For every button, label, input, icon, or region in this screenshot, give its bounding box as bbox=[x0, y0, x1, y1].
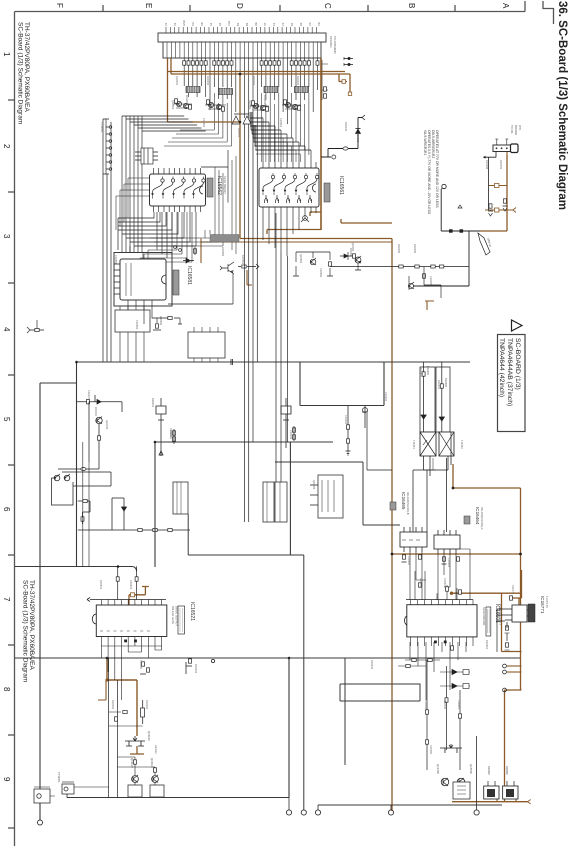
svg-text:C16461: C16461 bbox=[457, 700, 461, 710]
terminal drop right 2 bbox=[476, 736, 478, 810]
transistor below IC16561 bbox=[301, 213, 309, 222]
left rail x76 down bbox=[76, 362, 78, 567]
x427 long drop bbox=[426, 470, 428, 540]
svg-text:ST: ST bbox=[263, 22, 267, 26]
IC16464 label tag bbox=[464, 507, 484, 530]
third stage drops right half bbox=[262, 118, 301, 162]
brown crystal drops bbox=[497, 787, 516, 802]
mid verticals bbox=[427, 660, 460, 770]
wires under IC16501 bbox=[410, 642, 466, 700]
svg-text:B1: B1 bbox=[236, 22, 240, 26]
brown bus y238 long bbox=[240, 238, 392, 240]
wire x469 down elbow bbox=[413, 231, 469, 286]
extra verticals under mesh bbox=[136, 230, 214, 264]
long vertical x257 bbox=[256, 112, 258, 362]
svg-text:A1: A1 bbox=[209, 22, 213, 26]
svg-text:SC-Board (1/3) Schematic Diagr: SC-Board (1/3) Schematic Diagram bbox=[17, 22, 24, 124]
dip to ic16501 wires bbox=[410, 552, 456, 600]
rail y530 bbox=[78, 529, 190, 531]
wire q16003 drop bbox=[355, 263, 361, 270]
IC16581 top wire bbox=[130, 246, 143, 259]
svg-text:C16465: C16465 bbox=[407, 556, 411, 566]
svg-text:RA16562: RA16562 bbox=[185, 95, 189, 106]
box under pair bbox=[453, 782, 470, 799]
arrow terminal row3 bbox=[251, 264, 259, 269]
svg-text:R16004: R16004 bbox=[296, 76, 300, 86]
svg-text:R16022: R16022 bbox=[111, 700, 115, 710]
svg-text:SU: SU bbox=[191, 22, 195, 26]
svg-text:R16481: R16481 bbox=[426, 366, 430, 376]
svg-text:Q16460: Q16460 bbox=[436, 764, 440, 774]
brown wire q16010 drop bbox=[130, 746, 144, 754]
test point strip TP column bbox=[103, 119, 112, 174]
svg-text:R16521: R16521 bbox=[99, 580, 103, 590]
svg-text:7: 7 bbox=[2, 597, 11, 602]
wire y284 segment bbox=[424, 285, 441, 298]
svg-text:E: E bbox=[144, 3, 153, 8]
long rail y362 bbox=[77, 361, 471, 363]
svg-text:R16461: R16461 bbox=[485, 640, 489, 650]
svg-text:C1: C1 bbox=[272, 22, 276, 26]
svg-text:C16025: C16025 bbox=[139, 660, 143, 670]
x290 long drop bbox=[289, 442, 291, 555]
long vertical bundle center down bbox=[244, 124, 248, 522]
brown wire right rail down bbox=[520, 554, 522, 690]
wire bundle below connector bbox=[184, 58, 317, 125]
bottom bus y797 bbox=[67, 797, 289, 799]
svg-text:R16582: R16582 bbox=[221, 247, 225, 257]
IC16562 sub label bbox=[223, 176, 227, 194]
feeds above IC16521 bbox=[116, 566, 138, 599]
IC16561 body bbox=[259, 168, 319, 207]
brown wire IC16561 to bus bbox=[310, 212, 321, 216]
brown bead on cluster bbox=[342, 80, 346, 84]
IC16501 top pins bbox=[411, 600, 474, 605]
svg-text:SCAN DRIVER: SCAN DRIVER bbox=[482, 607, 486, 625]
svg-text:TP16561: TP16561 bbox=[100, 122, 104, 133]
IC16561 label text bbox=[338, 176, 344, 195]
IC16521 notch bbox=[92, 614, 96, 624]
svg-text:C16521: C16521 bbox=[129, 580, 133, 590]
border corner bracket top right bbox=[543, 1, 554, 24]
tick D/C bbox=[279, 5, 281, 12]
svg-text:T16451: T16451 bbox=[412, 440, 416, 449]
note region warning text col 2 bbox=[431, 130, 439, 208]
long wire y266 bbox=[330, 266, 469, 268]
terminal drop right 1 bbox=[390, 805, 392, 810]
transistor Q16003 bbox=[355, 256, 361, 263]
elbow lower bbox=[78, 501, 90, 524]
left terminal link wire bbox=[74, 786, 109, 788]
verticals right x423/441 to transformers bbox=[424, 458, 436, 470]
sustain upper circuit box bbox=[300, 362, 368, 428]
svg-text:DB-9-WRRGR1R2: DB-9-WRRGR1R2 bbox=[431, 130, 435, 158]
note region warning text col 1 bbox=[423, 130, 431, 215]
crystal labels bbox=[487, 766, 508, 775]
brown wire tap y651 bbox=[502, 651, 522, 653]
svg-text:F: F bbox=[55, 3, 64, 8]
IC16771 body bbox=[505, 605, 532, 622]
x155 drop bbox=[154, 442, 156, 567]
svg-text:TNPA4644 (42inch): TNPA4644 (42inch) bbox=[498, 338, 505, 397]
svg-text:R16012: R16012 bbox=[356, 133, 360, 143]
beads left bottom bbox=[115, 711, 128, 722]
tick B/A bbox=[454, 5, 456, 12]
IC16501 label text bbox=[494, 604, 500, 623]
IC16771 label tag bbox=[528, 604, 535, 622]
svg-text:SC-BOARD (1/3): SC-BOARD (1/3) bbox=[514, 338, 521, 390]
svg-text:D16010: D16010 bbox=[94, 407, 98, 417]
drive transformer box 2 bbox=[439, 432, 454, 456]
svg-text:B2: B2 bbox=[245, 22, 249, 26]
components x348 bbox=[346, 406, 351, 454]
svg-text:IC16465: IC16465 bbox=[401, 492, 406, 510]
svg-text:9: 9 bbox=[2, 777, 11, 782]
left terminal label bbox=[57, 772, 61, 783]
brown wire right cluster top bbox=[339, 74, 350, 93]
brown wire tap y666 bbox=[507, 665, 522, 667]
recovery cell right bbox=[281, 398, 296, 448]
svg-text:(P7): (P7) bbox=[518, 125, 522, 130]
svg-text:OR-AND(SU,SD)-A: OR-AND(SU,SD)-A bbox=[480, 507, 484, 530]
svg-text:B: B bbox=[407, 3, 416, 8]
svg-text:TP16001: TP16001 bbox=[57, 772, 61, 783]
rail y566 left bbox=[15, 567, 137, 572]
terminal drop 2 bbox=[303, 555, 305, 810]
transistor Q16010L bbox=[96, 417, 102, 425]
IC16464 dip body bbox=[434, 530, 460, 554]
warning triangle bbox=[512, 320, 523, 331]
svg-text:C16090: C16090 bbox=[429, 745, 433, 755]
svg-text:TO PA-: TO PA- bbox=[510, 125, 514, 134]
IC16501 body bbox=[407, 605, 477, 637]
IC16521 top wire bbox=[87, 598, 166, 602]
extra mesh verticals between ICs bbox=[215, 156, 236, 254]
svg-text:R16583: R16583 bbox=[159, 316, 163, 326]
svg-text:IC16771: IC16771 bbox=[540, 596, 545, 614]
IC16501 notch bbox=[405, 616, 407, 625]
svg-text:GEN22: GEN22 bbox=[154, 745, 158, 754]
brown wire y223 right bbox=[341, 219, 392, 223]
brown wire bottom right horiz bbox=[452, 801, 528, 803]
svg-text:Q16562: Q16562 bbox=[171, 100, 175, 110]
box outline above bbox=[340, 684, 420, 701]
IC16581 label text bbox=[186, 266, 192, 285]
components under rail bbox=[140, 659, 215, 674]
IC16465 dip body bbox=[400, 527, 427, 552]
wire bundle second stage drops bbox=[214, 93, 309, 155]
brown wire tap y672 bbox=[507, 671, 522, 673]
tick bottom bbox=[8, 827, 15, 829]
svg-text:C: C bbox=[323, 3, 332, 9]
mesh verticals under ic16562 bbox=[157, 212, 172, 262]
connector SC1 pin labels bbox=[164, 20, 321, 26]
svg-text:C16464: C16464 bbox=[447, 558, 451, 568]
svg-text:1: 1 bbox=[2, 52, 11, 57]
svg-text:SC-Board (1/3) Schematic Diagr: SC-Board (1/3) Schematic Diagram bbox=[22, 580, 29, 682]
vertical x367 from y410 bbox=[367, 413, 392, 470]
tick row8/9 bbox=[8, 734, 15, 736]
svg-text:Q16010: Q16010 bbox=[147, 731, 151, 741]
tick row2/3 bbox=[8, 191, 15, 193]
IC16581 label tag bbox=[173, 270, 179, 295]
IC16771 label text bbox=[540, 596, 545, 614]
rail y469 bbox=[58, 468, 99, 470]
terminal arrow right bbox=[362, 115, 365, 120]
connector SC1 pin stubs above bbox=[166, 27, 317, 33]
terminal circle right 2 bbox=[474, 810, 479, 815]
svg-text:CLK: CLK bbox=[227, 21, 231, 26]
IC16501 label tag bbox=[486, 607, 491, 636]
svg-text:R16002: R16002 bbox=[206, 76, 210, 86]
box below IC16581 bbox=[115, 310, 150, 332]
svg-text:T16452: T16452 bbox=[460, 440, 464, 449]
IC16561 bottom pins bbox=[263, 207, 316, 213]
P7 left pin elbow bbox=[485, 152, 496, 211]
P7 pin stubs up bbox=[495, 139, 508, 145]
IC16581 inner pin marks bbox=[126, 263, 131, 296]
nested corner feeds from bundle to right bbox=[122, 116, 206, 131]
svg-text:D16011: D16011 bbox=[151, 398, 155, 407]
note box outline bbox=[441, 189, 480, 231]
svg-text:TO D-BOARD: TO D-BOARD bbox=[333, 36, 337, 54]
svg-text:C16006: C16006 bbox=[429, 276, 433, 286]
components row under ic16501 bbox=[398, 659, 440, 668]
tick row4/5 bbox=[8, 374, 15, 376]
svg-text:A2: A2 bbox=[218, 22, 222, 26]
diode on branch bbox=[122, 507, 127, 511]
svg-text:36. SC-Board (1/3) Schematic D: 36. SC-Board (1/3) Schematic Diagram bbox=[556, 1, 568, 210]
svg-text:R16024: R16024 bbox=[194, 664, 198, 674]
brown bus upper bbox=[168, 71, 346, 73]
IC16501 top wire bbox=[406, 599, 473, 601]
gnd arrow right end bbox=[528, 800, 531, 804]
x289 lower drop bbox=[288, 658, 290, 798]
resistor pack RP2 bbox=[219, 89, 233, 95]
svg-text:OPERATES 5.5 Y(-77V OR MORE AN: OPERATES 5.5 Y(-77V OR MORE AND -16V OR … bbox=[427, 130, 431, 215]
left recovery circuit top bbox=[77, 395, 123, 412]
q labels bottom left bbox=[130, 758, 154, 768]
brown wire right loop horiz y690 bbox=[505, 689, 522, 691]
wire loop right of box bbox=[62, 472, 111, 486]
P7 connector box bbox=[493, 144, 518, 153]
components below IC16581 bbox=[153, 318, 161, 330]
IC16561 label tag bbox=[324, 183, 330, 202]
brown wire loop mid right bbox=[392, 488, 521, 554]
Q16010 mosfet bbox=[125, 736, 145, 746]
IC16562 notch bbox=[200, 186, 203, 194]
mesh below IC16562 bbox=[118, 212, 196, 246]
component cluster under note bbox=[408, 267, 425, 290]
wires around ic16771 bbox=[497, 609, 507, 652]
rail y462 right bbox=[275, 462, 400, 525]
terminal drop 1 bbox=[288, 798, 290, 811]
svg-text:5: 5 bbox=[2, 417, 11, 422]
svg-text:C16584: C16584 bbox=[135, 320, 139, 330]
far left rail x40 bbox=[40, 383, 77, 820]
brown elbow bottom left of note bbox=[425, 301, 434, 310]
left terminal box 2 bbox=[34, 787, 55, 803]
via circles right column bbox=[503, 664, 507, 692]
bead pairs right of connector bbox=[344, 57, 353, 66]
bottom bus right y805 bbox=[318, 804, 502, 806]
brown wire P7 right vertical bbox=[506, 155, 508, 231]
brown wire P7 branch y210 bbox=[485, 209, 513, 211]
IC16521 sub label bbox=[171, 606, 179, 626]
caps under dips bbox=[402, 555, 460, 564]
IC16521 top pins bbox=[101, 600, 161, 606]
svg-text:D16006: D16006 bbox=[397, 244, 401, 254]
tick row6/7 bbox=[8, 554, 15, 556]
bus left drop bbox=[66, 794, 68, 798]
right lower diode branch bbox=[112, 498, 124, 530]
resistor x142 bbox=[141, 700, 145, 724]
IC16465 label tag bbox=[390, 492, 410, 515]
svg-text:R16452: R16452 bbox=[437, 380, 441, 390]
svg-text:C16561: C16561 bbox=[279, 118, 283, 128]
bottom left transistor pair Q16022 bbox=[132, 775, 159, 783]
svg-text:3: 3 bbox=[2, 234, 11, 239]
IC16501 sub label bbox=[482, 604, 503, 626]
svg-text:6: 6 bbox=[2, 507, 11, 512]
brown bead on entry bbox=[131, 593, 135, 597]
bead row under connector bbox=[183, 61, 319, 65]
brown termination components bbox=[488, 199, 508, 211]
IC16561 top pins bbox=[263, 162, 316, 168]
svg-text:D2: D2 bbox=[299, 22, 303, 26]
brown wire into ic16521 top bbox=[129, 587, 149, 606]
circle terminal above note box bbox=[441, 184, 446, 189]
drive transformer pair verticals bbox=[424, 362, 442, 432]
svg-text:RA16561: RA16561 bbox=[263, 95, 267, 106]
mid rail y442 bbox=[155, 441, 333, 443]
svg-text:ON-CHL GATE: ON-CHL GATE bbox=[171, 606, 175, 624]
border top horizontal line bbox=[15, 11, 526, 13]
svg-text:C16771: C16771 bbox=[511, 585, 515, 595]
IC16581 notch bbox=[162, 275, 167, 284]
brown wire y229 left bbox=[267, 230, 321, 235]
bead on left drop bbox=[98, 436, 101, 440]
left terminal box bbox=[62, 782, 74, 794]
IC16562 body bbox=[150, 174, 206, 206]
terminal circle 3 bbox=[315, 810, 320, 815]
vertical feed stubs above IC16561 bbox=[250, 112, 256, 150]
svg-text:BOARD: BOARD bbox=[514, 125, 518, 135]
svg-text:R16009: R16009 bbox=[499, 160, 503, 170]
resistor pack RP3 bbox=[264, 87, 278, 93]
circuit right of ic16581 bbox=[293, 252, 333, 276]
left verticals to bottom bbox=[83, 442, 89, 566]
wires ic16521 to rail bbox=[101, 646, 161, 700]
wire loop around IC16562 right bbox=[201, 150, 228, 203]
brown wire horizontal y122 bbox=[168, 121, 241, 123]
IC16771 sub label bbox=[545, 596, 549, 608]
brown wire ic16501 top bbox=[452, 570, 522, 652]
resistor pack RP4 bbox=[295, 87, 309, 93]
brown bead on branch 2 bbox=[495, 208, 499, 212]
rail y658 bbox=[15, 657, 520, 659]
rail y555 bbox=[188, 554, 304, 556]
IC16562 label text bbox=[216, 176, 222, 195]
bead on elbow bbox=[83, 500, 87, 503]
wires below IC16581 bbox=[128, 300, 170, 324]
IC16521 tag inner marks bbox=[180, 608, 183, 632]
svg-text:D16002: D16002 bbox=[344, 122, 348, 132]
wire stub x460 bbox=[458, 205, 462, 208]
IC16521 inner marks bbox=[100, 630, 150, 632]
svg-text:SD: SD bbox=[200, 22, 204, 26]
IC16581 body bbox=[120, 259, 166, 300]
IC16521 body bbox=[96, 605, 167, 637]
svg-text:C16506: C16506 bbox=[424, 700, 428, 710]
svg-text:8: 8 bbox=[2, 687, 11, 692]
svg-text:D16001: D16001 bbox=[237, 128, 241, 138]
brown wire P7 branch y185 bbox=[489, 185, 507, 187]
svg-text:R16003: R16003 bbox=[252, 76, 256, 86]
crystal box 1 bbox=[484, 781, 499, 799]
svg-text:4: 4 bbox=[2, 327, 11, 332]
brown bus lower bbox=[171, 73, 350, 75]
beads on y530 bbox=[138, 529, 172, 532]
lower-left box outline bbox=[52, 478, 74, 505]
svg-text:VD: VD bbox=[317, 22, 321, 26]
svg-text:DRIVE OUTPUT: DRIVE OUTPUT bbox=[175, 606, 179, 626]
svg-text:C16416: C16416 bbox=[344, 415, 348, 425]
border left vertical line bbox=[14, 12, 16, 847]
IC16581 left pins bbox=[114, 264, 120, 294]
transistor pair bottom right bbox=[441, 778, 465, 786]
diodes left of q16581 bbox=[183, 247, 197, 263]
vertical x287 bbox=[286, 256, 288, 442]
svg-text:V2: V2 bbox=[173, 22, 177, 26]
IC16562 label tag bbox=[207, 178, 213, 197]
IC16501 bottom pins bbox=[411, 637, 474, 646]
svg-text:SCAN SW(UP): SCAN SW(UP) bbox=[223, 176, 227, 194]
wires below IC16561 bbox=[263, 213, 299, 256]
svg-text:SC16001: SC16001 bbox=[329, 36, 333, 48]
terminal circle 2 bbox=[301, 810, 306, 815]
recovery cell mid labels bbox=[151, 398, 173, 438]
bead lower bbox=[81, 517, 84, 521]
extra mesh elbows to left below ic16562 bbox=[136, 212, 223, 262]
diode row right bbox=[440, 670, 470, 689]
Q16005 circuit left-mid bbox=[310, 475, 343, 518]
IC16562 top pins bbox=[154, 168, 201, 174]
left transistor pair bbox=[54, 474, 70, 481]
tick row1/2 bbox=[8, 99, 15, 101]
svg-text:R16451: R16451 bbox=[419, 368, 423, 378]
wire joints at ic16562 left bbox=[116, 178, 150, 230]
tick F/E bbox=[102, 5, 104, 12]
package D cluster bbox=[135, 148, 158, 164]
svg-text:Q16022: Q16022 bbox=[130, 758, 134, 768]
horizontal feeds to IC16561 bbox=[250, 118, 311, 150]
IC16501 pin dots bbox=[434, 641, 447, 644]
wires below transformers bbox=[424, 432, 451, 476]
left circuit verticals bbox=[89, 402, 99, 469]
svg-text:Q16021: Q16021 bbox=[150, 758, 154, 768]
svg-text:D16560: D16560 bbox=[505, 766, 508, 775]
svg-text:TNPA4644AB (37inch): TNPA4644AB (37inch) bbox=[506, 338, 513, 406]
brown wire x504 down to bus bbox=[504, 690, 506, 801]
IC16521 label text bbox=[189, 602, 195, 621]
svg-text:VS: VS bbox=[308, 22, 312, 26]
terminal circle 1 bbox=[286, 810, 291, 815]
svg-text:R16006: R16006 bbox=[413, 244, 417, 254]
transformer tall box 2 bbox=[436, 367, 450, 432]
svg-text:Q16582: Q16582 bbox=[299, 254, 303, 264]
brown wire ic16521 area bbox=[107, 658, 137, 736]
